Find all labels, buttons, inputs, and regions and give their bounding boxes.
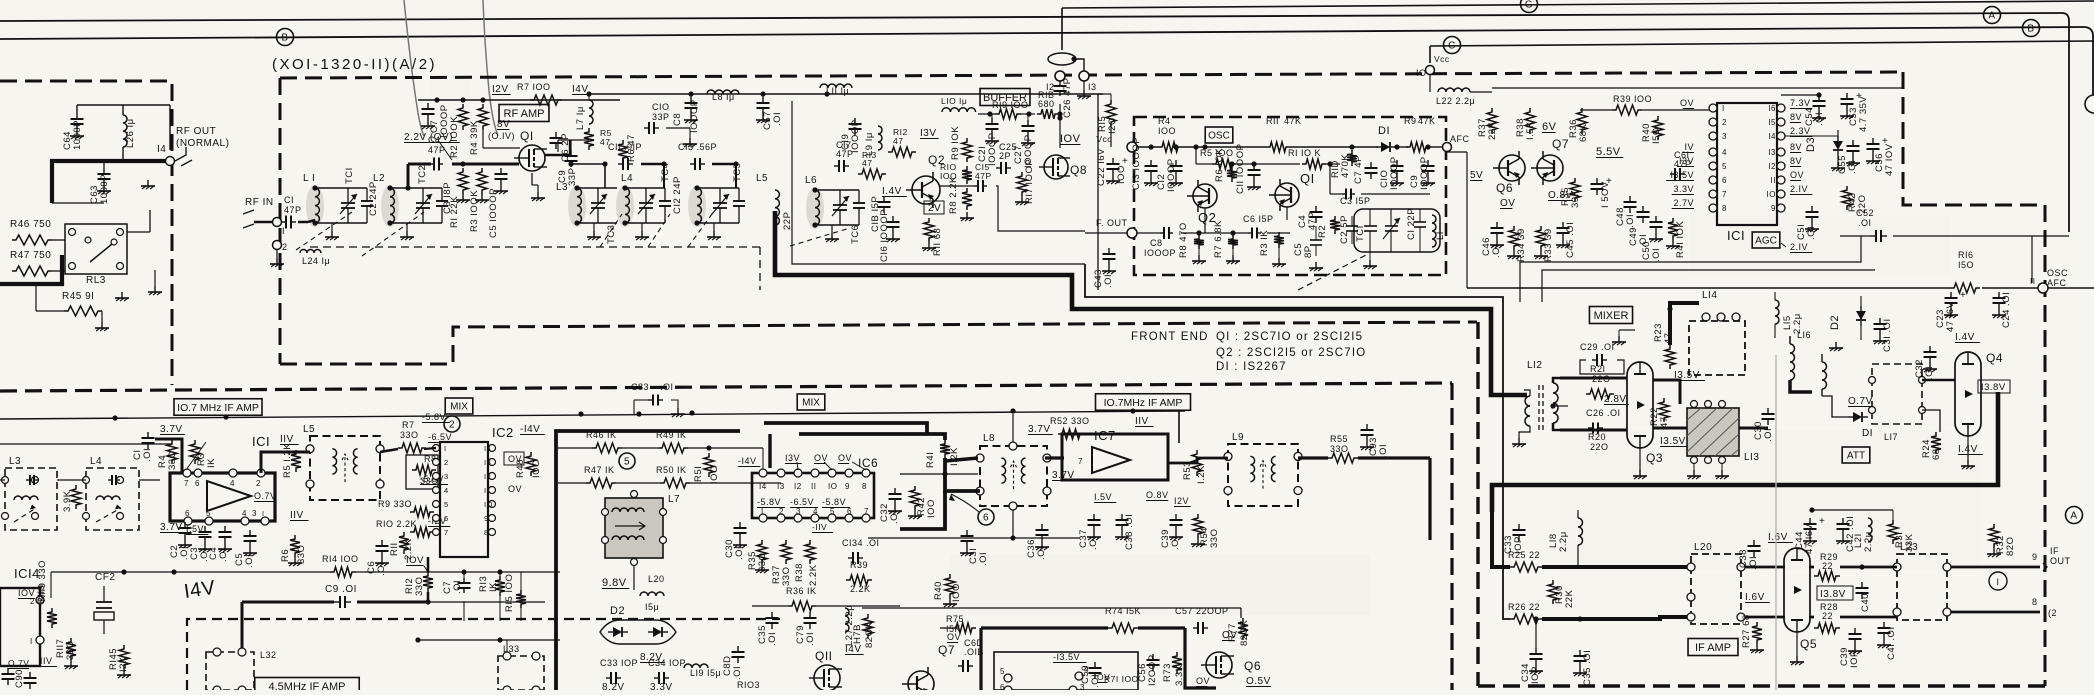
svg-text:DI : IS2267: DI : IS2267 xyxy=(1216,361,1287,373)
transformer L8 xyxy=(980,446,1047,506)
svg-text:3.9K: 3.9K xyxy=(62,490,73,512)
IC6 block xyxy=(752,473,874,518)
dashed TC6 diag xyxy=(790,228,850,246)
transistor Q2 buffer xyxy=(912,176,940,204)
svg-text:IO: IO xyxy=(1767,190,1776,199)
svg-text:IIV: IIV xyxy=(290,510,304,521)
svg-text:I.6V: I.6V xyxy=(1768,532,1788,543)
svg-text:5V: 5V xyxy=(1470,170,1483,181)
resistor R145 12K xyxy=(119,645,129,669)
capacitor C39b xyxy=(1854,628,1856,634)
resistor R37b 330 xyxy=(781,540,791,564)
label 10.7MHz IF AMP right xyxy=(1096,394,1191,411)
resistor R34 39 xyxy=(1509,226,1519,250)
resistor R73 xyxy=(1172,652,1182,674)
svg-text:CI: CI xyxy=(284,195,294,205)
svg-text:C26 .OI: C26 .OI xyxy=(1586,408,1621,418)
svg-text:TC3: TC3 xyxy=(606,225,617,244)
svg-text:470K: 470K xyxy=(1340,154,1351,178)
OSC box xyxy=(1134,117,1446,275)
svg-text:IO: IO xyxy=(1416,68,1427,78)
svg-text:R7I IOO: R7I IOO xyxy=(1104,674,1139,684)
inductor L16b xyxy=(1822,362,1827,389)
svg-text:CI6 IOOOP: CI6 IOOOP xyxy=(879,209,890,262)
svg-text:IOO: IOO xyxy=(1158,126,1176,136)
IF amp module boundary top xyxy=(0,383,1452,391)
svg-text:Q7: Q7 xyxy=(1552,137,1569,151)
capacitor C19 1000P xyxy=(854,118,856,124)
resistor R30 22K xyxy=(1548,580,1558,604)
svg-text:I6: I6 xyxy=(1768,104,1776,113)
tank L2 TC2 xyxy=(381,185,399,227)
svg-text:ICI: ICI xyxy=(1727,228,1745,243)
wire xyxy=(298,221,308,224)
wire thick ic1b in xyxy=(155,439,182,473)
svg-text:RIO 2.2K: RIO 2.2K xyxy=(376,519,417,529)
svg-text:I3.5V: I3.5V xyxy=(1660,436,1686,447)
node edge connector right xyxy=(2085,95,2094,113)
transformer L5b xyxy=(310,436,380,500)
svg-text:R4: R4 xyxy=(1158,116,1171,126)
capacitor C48 xyxy=(1629,196,1631,202)
resistor R6c 330 xyxy=(290,535,300,557)
resistor 3.9K xyxy=(71,485,81,509)
svg-text:2: 2 xyxy=(1722,118,1727,127)
svg-text:7: 7 xyxy=(864,507,869,516)
transistor Q7 xyxy=(1537,155,1563,181)
svg-text:I: I xyxy=(1722,104,1725,113)
svg-text:IOV: IOV xyxy=(1060,133,1081,145)
svg-text:.OI: .OI xyxy=(767,632,778,646)
capacitor C5 8P xyxy=(1315,226,1317,240)
svg-text:3.3V: 3.3V xyxy=(650,682,673,690)
svg-text:IOOOP: IOOOP xyxy=(850,119,861,153)
svg-text:3: 3 xyxy=(796,507,801,516)
resistor R17 100P xyxy=(1017,172,1027,196)
wire fout xyxy=(1085,232,1127,234)
label ATT xyxy=(1842,447,1870,463)
wire thick drain xyxy=(545,140,570,155)
svg-text:.OI: .OI xyxy=(660,382,674,392)
capacitor C7b xyxy=(463,578,465,583)
svg-text:.OI: .OI xyxy=(1814,112,1825,126)
resistor R31 33K xyxy=(1888,520,1898,544)
tank L6 TC6 xyxy=(806,187,824,229)
svg-text:.OI: .OI xyxy=(734,546,745,560)
inductor L27 xyxy=(845,608,849,632)
svg-text:.OI: .OI xyxy=(1170,536,1181,550)
connector 11 xyxy=(2038,283,2048,293)
svg-text:2.2V (OV): 2.2V (OV) xyxy=(404,132,453,143)
svg-text:IC6: IC6 xyxy=(858,456,878,470)
svg-text:R5I: R5I xyxy=(693,466,704,482)
svg-text:IOO: IOO xyxy=(951,583,962,602)
capacitor C6 2P xyxy=(555,132,557,138)
svg-text:R7 IOO: R7 IOO xyxy=(517,82,551,92)
svg-text:7: 7 xyxy=(1722,190,1727,199)
resistor R2 100K xyxy=(458,104,468,130)
svg-text:I3.8V: I3.8V xyxy=(1981,382,2006,393)
svg-text:.OI: .OI xyxy=(1806,226,1817,240)
svg-text:8V: 8V xyxy=(497,119,510,130)
svg-text:R50 IK: R50 IK xyxy=(656,465,687,475)
label MIX left xyxy=(445,398,473,414)
svg-text:4.7 35V: 4.7 35V xyxy=(1858,96,1869,132)
svg-text:I2V: I2V xyxy=(1174,496,1189,506)
capacitor C35c xyxy=(771,612,773,618)
resistor H78 xyxy=(863,614,873,638)
svg-text:(2: (2 xyxy=(2048,608,2057,618)
svg-text:C29 .OI: C29 .OI xyxy=(1580,342,1615,352)
resistor R48b xyxy=(526,452,536,476)
svg-text:TCI: TCI xyxy=(1355,225,1366,242)
svg-text:.OI: .OI xyxy=(1625,214,1636,228)
svg-text:I.5V: I.5V xyxy=(1094,492,1112,502)
svg-text:82OK: 82OK xyxy=(1239,620,1250,646)
inductor L13 shaded xyxy=(1687,408,1739,456)
svg-text:7: 7 xyxy=(184,479,189,488)
capacitor C21 1000P xyxy=(991,118,993,124)
svg-text:3.7V: 3.7V xyxy=(1028,424,1051,435)
resistor R7 6.8K xyxy=(1228,235,1238,249)
svg-text:7.3V: 7.3V xyxy=(1790,98,1811,108)
resistor R15 120 xyxy=(1106,100,1116,126)
capacitor C9 33P xyxy=(570,150,572,156)
tank L3 TC3 xyxy=(568,185,586,227)
capacitor C56b xyxy=(1872,138,1874,144)
node A xyxy=(1984,7,2001,24)
label 10.7MHz IF AMP left xyxy=(174,399,262,416)
capacitor C64 xyxy=(76,113,78,119)
svg-text:RI 22K: RI 22K xyxy=(449,196,460,228)
capacitor C44 xyxy=(1809,518,1811,524)
svg-text:R39: R39 xyxy=(850,560,868,570)
svg-text:2: 2 xyxy=(449,420,455,431)
svg-text:RF IN: RF IN xyxy=(245,197,274,208)
svg-text:R73: R73 xyxy=(1162,663,1173,682)
svg-text:R47 750: R47 750 xyxy=(10,250,51,261)
capacitor C32c xyxy=(894,488,896,494)
svg-text:C34 IOP: C34 IOP xyxy=(648,658,686,668)
svg-text:I2: I2 xyxy=(1046,82,1055,92)
svg-text:L6: L6 xyxy=(805,175,817,186)
svg-text:LI2: LI2 xyxy=(1527,360,1542,371)
svg-text:QI : 2SC7IO or 2SCI2I5: QI : 2SC7IO or 2SCI2I5 xyxy=(1216,331,1363,343)
svg-text:R4 39K: R4 39K xyxy=(469,120,480,155)
svg-text:.OI: .OI xyxy=(889,510,900,524)
capacitor C79 xyxy=(809,612,811,618)
node B right xyxy=(2023,20,2040,37)
capacitor C9 1000P xyxy=(1427,160,1429,166)
resistor R10 470K xyxy=(1347,150,1357,166)
inductor L20 box xyxy=(1691,554,1741,624)
svg-text:G: G xyxy=(1525,0,1533,11)
ground xyxy=(147,180,149,186)
svg-text:22O: 22O xyxy=(1590,442,1609,452)
svg-text:MIX: MIX xyxy=(450,402,468,413)
svg-text:C83: C83 xyxy=(631,382,649,392)
connector pin 1 xyxy=(273,218,282,227)
svg-text:L I: L I xyxy=(303,173,315,184)
svg-text:RIO3: RIO3 xyxy=(737,680,760,690)
dashed gang to osc tankdiag xyxy=(1298,254,1368,290)
svg-text:33P: 33P xyxy=(567,168,578,186)
circ 6 xyxy=(978,509,994,525)
front end module boundary left xyxy=(279,78,282,364)
connector 13 xyxy=(1079,71,1089,81)
svg-text:A: A xyxy=(1988,11,1995,22)
resistor R23 47 xyxy=(1665,345,1675,369)
svg-text:R40: R40 xyxy=(933,581,944,600)
svg-text:LI4: LI4 xyxy=(1702,290,1717,301)
svg-text:R34 39: R34 39 xyxy=(1516,228,1527,262)
svg-text:I3.5V: I3.5V xyxy=(1670,170,1694,180)
node dots ifamp xyxy=(1533,616,1538,621)
svg-text:7: 7 xyxy=(1078,457,1083,466)
svg-text:DI: DI xyxy=(1378,125,1390,137)
connector 12 xyxy=(1055,71,1065,81)
svg-text:I3.8V: I3.8V xyxy=(1820,589,1846,600)
svg-text:8: 8 xyxy=(862,482,867,491)
svg-text:ICI: ICI xyxy=(252,434,270,449)
svg-text:RL3: RL3 xyxy=(86,275,106,286)
svg-text:IOP: IOP xyxy=(1530,666,1541,684)
svg-text:R26 22: R26 22 xyxy=(1508,602,1540,612)
scan fold seam xyxy=(1775,355,1777,690)
svg-text:4: 4 xyxy=(813,507,818,516)
svg-text:I.4V: I.4V xyxy=(1955,332,1975,343)
wire AFC xyxy=(1447,151,1467,153)
svg-text:I.2K: I.2K xyxy=(1196,465,1207,484)
capacitor C6b xyxy=(381,540,383,546)
svg-text:IOOOP: IOOOP xyxy=(1419,156,1430,190)
svg-text:LIO Iμ: LIO Iμ xyxy=(941,96,967,106)
svg-text:.OI: .OI xyxy=(732,666,743,680)
svg-text:IOOOP: IOOOP xyxy=(1144,248,1176,258)
label BUFFER xyxy=(980,89,1030,106)
dashed gang diag xyxy=(600,214,622,247)
svg-text:-IIV: -IIV xyxy=(812,522,827,532)
svg-text:4: 4 xyxy=(230,479,235,488)
wire osc 164 xyxy=(1196,163,1212,165)
svg-text:R77: R77 xyxy=(1227,623,1238,642)
osc tank wires xyxy=(1371,193,1430,195)
svg-text:2V: 2V xyxy=(928,203,941,214)
wire bus top line 1 xyxy=(0,13,2062,21)
svg-text:OV: OV xyxy=(838,453,852,463)
svg-text:OV: OV xyxy=(1196,676,1210,686)
svg-text:5: 5 xyxy=(1722,162,1727,171)
wire out 8 xyxy=(1951,611,2040,614)
svg-text:IOOOP: IOOOP xyxy=(1166,158,1177,192)
svg-text:I.2K: I.2K xyxy=(949,447,960,466)
IC1 left pins xyxy=(1709,104,1717,112)
svg-text:Vcc: Vcc xyxy=(1434,54,1450,64)
ground xyxy=(537,192,539,198)
inner dashed 4.5MHz box xyxy=(187,619,780,690)
svg-text:2P: 2P xyxy=(999,151,1011,161)
svg-text:5: 5 xyxy=(444,500,449,509)
wire q2 emitter xyxy=(1204,208,1206,233)
svg-text:5: 5 xyxy=(830,507,835,516)
svg-text:22K: 22K xyxy=(1487,121,1498,140)
svg-text:.OI: .OI xyxy=(218,548,229,562)
svg-text:I: I xyxy=(262,511,264,518)
svg-text:CIO: CIO xyxy=(652,102,670,112)
cap row under IC1b xyxy=(184,522,186,528)
svg-text:33O: 33O xyxy=(757,553,768,572)
wire thick gate xyxy=(407,164,410,188)
capacitor C5 1000P xyxy=(500,168,502,174)
resistor R53 xyxy=(1192,450,1202,476)
svg-text:L20: L20 xyxy=(648,574,665,584)
svg-text:4: 4 xyxy=(242,509,247,518)
svg-text:R45 9I: R45 9I xyxy=(62,291,94,302)
svg-text:3: 3 xyxy=(444,472,449,481)
svg-text:68K: 68K xyxy=(1578,123,1589,142)
svg-text:.OI: .OI xyxy=(376,562,387,576)
connector pin 2 xyxy=(273,241,282,250)
svg-text:O.7V: O.7V xyxy=(254,491,277,501)
ground xyxy=(1083,81,1085,90)
svg-text:I4: I4 xyxy=(1768,132,1776,141)
resistor R51 100 xyxy=(704,453,714,477)
svg-text:8: 8 xyxy=(484,528,489,537)
svg-text:Q7: Q7 xyxy=(938,643,955,657)
wire L16 to L17 xyxy=(1822,396,1848,417)
svg-text:B: B xyxy=(281,33,288,44)
resistor R2 47K xyxy=(1330,216,1340,234)
svg-text:LI7: LI7 xyxy=(1884,432,1898,442)
svg-text:R5 I.2K: R5 I.2K xyxy=(282,443,293,478)
ground q4 xyxy=(1967,436,1969,460)
transistor Q1 osc xyxy=(1275,183,1299,207)
svg-text:R39 IOO: R39 IOO xyxy=(1613,94,1652,104)
resistor R117 330 xyxy=(66,638,76,660)
svg-text:33O: 33O xyxy=(414,577,425,596)
svg-text:Q3: Q3 xyxy=(1646,451,1663,465)
capacitor C33b 10P xyxy=(1518,524,1520,530)
svg-text:IOO: IOO xyxy=(709,465,720,484)
svg-text:I.6V: I.6V xyxy=(1745,592,1765,603)
resistor R4 39K xyxy=(478,104,488,130)
antenna module boundary xyxy=(0,81,172,385)
wire q5 row xyxy=(1745,566,1785,569)
front end module boundary top xyxy=(280,72,1903,78)
resistor R37 22K xyxy=(1487,108,1497,134)
svg-text:2.3V: 2.3V xyxy=(1790,126,1811,136)
capacitor C23 xyxy=(1950,292,1952,298)
svg-text:II: II xyxy=(2030,277,2035,286)
svg-text:8.2V: 8.2V xyxy=(602,682,625,690)
svg-text:6: 6 xyxy=(444,514,449,523)
svg-text:C90: C90 xyxy=(14,669,25,688)
label MIX mid xyxy=(797,394,825,410)
IC8 box xyxy=(994,652,1138,690)
capacitor C12 xyxy=(1175,160,1177,166)
capacitor C93 xyxy=(1366,424,1368,430)
capacitor C46 xyxy=(1496,222,1498,228)
capacitor tank4 xyxy=(108,479,112,481)
svg-text:R6 IOK: R6 IOK xyxy=(1214,148,1225,182)
resistor R119 330 xyxy=(47,608,57,628)
label IF AMP xyxy=(1688,639,1738,656)
capacitor C53 xyxy=(1846,93,1848,99)
svg-text:5: 5 xyxy=(1000,667,1005,676)
capacitor C80 xyxy=(737,646,739,652)
svg-text:22K: 22K xyxy=(1564,589,1575,608)
svg-text:2.IV: 2.IV xyxy=(1790,184,1808,194)
svg-text:R36 IK: R36 IK xyxy=(786,586,817,596)
svg-text:I: I xyxy=(761,507,764,516)
resistor R12b 330 xyxy=(423,572,433,592)
svg-text:D3: D3 xyxy=(1805,137,1817,152)
label AGC xyxy=(1752,232,1780,248)
wire bus top line 2 xyxy=(0,27,2085,39)
svg-text:LI: LI xyxy=(1435,231,1446,240)
svg-text:IO: IO xyxy=(484,500,493,509)
svg-text:47 IOV: 47 IOV xyxy=(1884,143,1895,176)
svg-text:AFC: AFC xyxy=(2047,278,2067,288)
svg-text:6V: 6V xyxy=(1542,121,1557,133)
resistor R8 2.2K xyxy=(962,188,972,210)
svg-text:47: 47 xyxy=(1659,416,1670,428)
svg-text:OUT: OUT xyxy=(2050,556,2071,566)
resistor R41 10K xyxy=(1668,218,1678,240)
svg-text:I2V: I2V xyxy=(492,84,509,95)
svg-text:1000P: 1000P xyxy=(72,120,83,150)
capacitor C35b xyxy=(1579,650,1581,656)
svg-text:I3V: I3V xyxy=(920,128,937,139)
svg-text:TC2: TC2 xyxy=(417,165,428,184)
L14 pins xyxy=(1702,313,1710,321)
svg-text:L32: L32 xyxy=(260,650,277,660)
node dots q1 xyxy=(568,161,573,166)
svg-text:AGC: AGC xyxy=(1755,236,1777,247)
capacitor C1b xyxy=(147,432,149,438)
capacitor C4 47P xyxy=(1315,206,1317,212)
svg-text:II: II xyxy=(484,486,489,495)
resistor R32 820 xyxy=(1989,524,1999,548)
svg-text:33O: 33O xyxy=(1209,529,1220,548)
svg-text:R9 IOK: R9 IOK xyxy=(950,126,961,160)
svg-text:33O: 33O xyxy=(781,567,792,586)
resistor R40 150 xyxy=(1653,116,1663,140)
resistor R33 39 xyxy=(1536,226,1546,250)
svg-text:R48: R48 xyxy=(515,459,526,478)
svg-text:R7 6.8K: R7 6.8K xyxy=(1213,220,1224,258)
resistor R35 39K xyxy=(1570,178,1580,202)
svg-text:RF OUT: RF OUT xyxy=(176,126,216,137)
svg-text:I5O: I5O xyxy=(1651,127,1662,144)
wire xyxy=(482,130,484,148)
connector AFC xyxy=(1443,143,1452,152)
connector Vcc xyxy=(1127,142,1137,152)
wire thick antenna 2 xyxy=(0,255,62,284)
wire q1 region xyxy=(1286,207,1288,220)
resistor R77 xyxy=(1238,618,1248,640)
svg-text:C9 .OI: C9 .OI xyxy=(325,584,357,595)
svg-text:I3: I3 xyxy=(1768,148,1776,157)
svg-text:R8 2.2K: R8 2.2K xyxy=(948,176,959,214)
capacitor C16 1000P xyxy=(892,216,894,222)
wire xyxy=(103,161,105,168)
wire ic6 bottom xyxy=(752,605,788,607)
svg-text:L22 2.2μ: L22 2.2μ xyxy=(1436,96,1475,106)
svg-text:2.2μ: 2.2μ xyxy=(1558,531,1569,552)
relay RL3 xyxy=(65,224,127,274)
ground xyxy=(1619,329,1635,331)
